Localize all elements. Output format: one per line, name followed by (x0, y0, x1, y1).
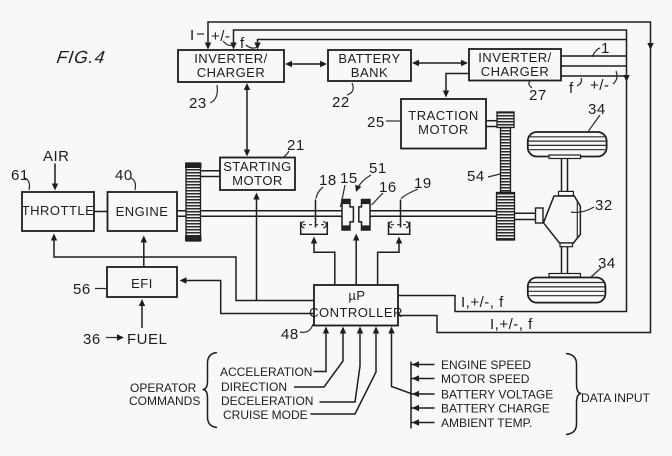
svg-text:ENGINE: ENGINE (116, 204, 169, 219)
svg-text:54: 54 (467, 168, 485, 185)
svg-text:INVERTER/: INVERTER/ (194, 51, 268, 66)
svg-text:32: 32 (595, 197, 613, 214)
svg-text:THROTTLE: THROTTLE (22, 203, 95, 218)
svg-text:BATTERY: BATTERY (338, 51, 400, 66)
svg-text:MOTOR SPEED: MOTOR SPEED (441, 372, 530, 386)
svg-text:I,+/-, f: I,+/-, f (461, 294, 504, 311)
svg-text:BANK: BANK (351, 65, 388, 80)
svg-text:+/-: +/- (211, 28, 230, 45)
svg-text:BATTERY VOLTAGE: BATTERY VOLTAGE (441, 388, 553, 402)
svg-text:48: 48 (281, 326, 299, 343)
svg-text:61: 61 (11, 167, 29, 184)
svg-text:BATTERY CHARGE: BATTERY CHARGE (441, 402, 550, 416)
svg-text:MOTOR: MOTOR (418, 122, 469, 137)
svg-text:15: 15 (340, 170, 358, 187)
svg-text:40: 40 (115, 167, 133, 184)
svg-text:21: 21 (287, 137, 305, 154)
svg-text:22: 22 (332, 94, 350, 111)
svg-text:36: 36 (83, 331, 101, 348)
svg-text:AMBIENT TEMP.: AMBIENT TEMP. (441, 416, 532, 430)
svg-text:ACCELERATION: ACCELERATION (220, 365, 312, 379)
svg-text:CRUISE MODE: CRUISE MODE (223, 408, 308, 422)
svg-text:27: 27 (529, 87, 547, 104)
svg-text:DATA INPUT: DATA INPUT (581, 391, 651, 405)
svg-text:OPERATOR: OPERATOR (130, 381, 197, 395)
svg-text:51: 51 (369, 160, 387, 177)
svg-text:18: 18 (319, 172, 337, 189)
svg-text:DIRECTION: DIRECTION (221, 380, 287, 394)
svg-text:EFI: EFI (131, 276, 153, 291)
svg-text:CONTROLLER: CONTROLLER (309, 305, 403, 320)
svg-text:34: 34 (598, 255, 616, 272)
svg-text:FIG.4: FIG.4 (55, 47, 107, 67)
svg-text:16: 16 (379, 179, 397, 196)
svg-text:25: 25 (367, 114, 385, 131)
svg-text:f: f (569, 80, 574, 97)
svg-text:STARTING: STARTING (223, 159, 292, 174)
svg-text:1: 1 (601, 40, 610, 57)
svg-text:MOTOR: MOTOR (232, 173, 283, 188)
svg-text:CHARGER: CHARGER (481, 64, 550, 79)
svg-text:CHARGER: CHARGER (197, 65, 266, 80)
svg-text:I: I (190, 27, 195, 44)
svg-text:TRACTION: TRACTION (408, 108, 478, 123)
svg-text:INVERTER/: INVERTER/ (478, 50, 552, 65)
svg-text:DECELERATION: DECELERATION (221, 394, 313, 408)
svg-text:56: 56 (73, 281, 91, 298)
svg-text:AIR: AIR (43, 148, 70, 165)
svg-text:µP: µP (348, 288, 365, 303)
svg-text:ENGINE SPEED: ENGINE SPEED (441, 358, 531, 372)
svg-text:COMMANDS: COMMANDS (129, 394, 200, 408)
svg-text:34: 34 (588, 101, 606, 118)
svg-text:+/-: +/- (590, 77, 609, 94)
svg-text:I,+/-, f: I,+/-, f (490, 316, 533, 333)
svg-text:23: 23 (189, 95, 207, 112)
svg-text:FUEL: FUEL (127, 331, 167, 348)
